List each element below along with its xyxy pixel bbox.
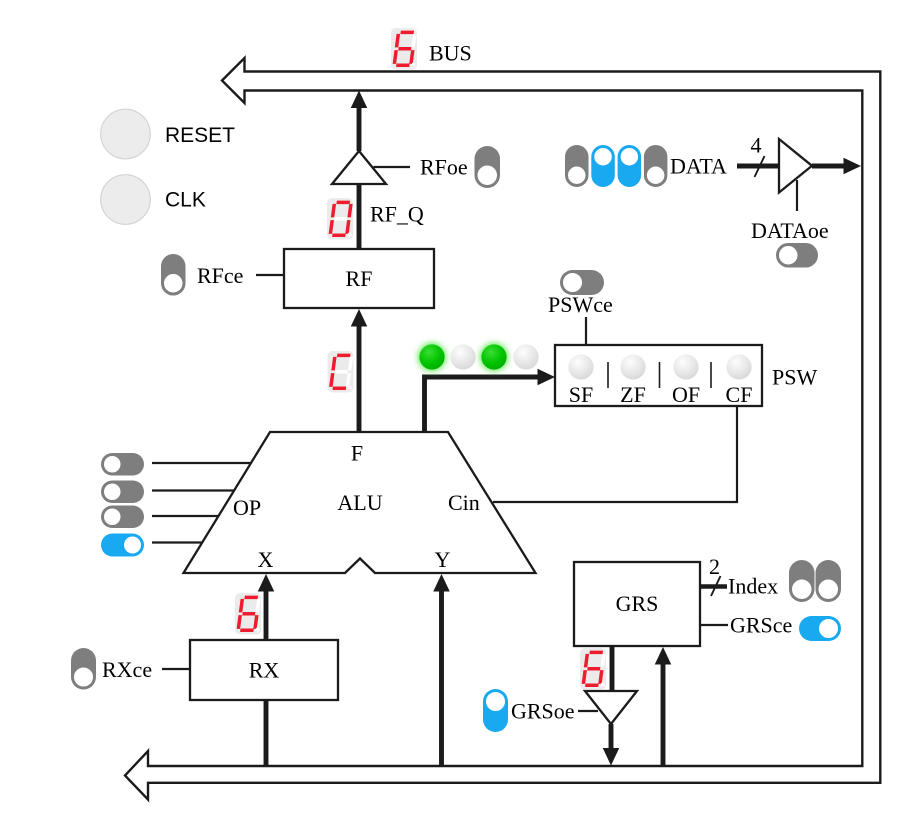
register RX xyxy=(190,640,338,700)
svg-text:PSWce: PSWce xyxy=(548,292,613,317)
arrowhead into right bus xyxy=(844,158,862,175)
wire bus to RX xyxy=(264,700,269,766)
wire bus to GRS xyxy=(661,660,666,766)
svg-text:CLK: CLK xyxy=(165,189,206,212)
wire RF to buffer xyxy=(357,184,362,249)
svg-text:CF: CF xyxy=(726,382,753,407)
svg-text:DATA: DATA xyxy=(670,154,727,179)
register PSW xyxy=(555,345,762,406)
wire RXce stub xyxy=(162,668,190,670)
toggle RXce (off) xyxy=(71,648,96,690)
wire GRSoe stub xyxy=(578,710,598,712)
toggle DATA bit0 (off) xyxy=(644,145,668,187)
tri-state buffer RFoe (up) xyxy=(332,151,386,184)
wire buffer to bus xyxy=(812,164,848,169)
svg-text:Index: Index xyxy=(728,574,778,599)
arrowhead into bottom bus xyxy=(603,748,620,766)
arrowhead into ALU X xyxy=(258,574,275,592)
svg-text:RF_Q: RF_Q xyxy=(370,202,424,227)
svg-text:X: X xyxy=(258,547,274,572)
svg-text:RXce: RXce xyxy=(102,657,152,682)
wire RX to ALU X xyxy=(264,585,269,640)
ALU xyxy=(184,432,536,573)
wire ALU flags to PSW xyxy=(425,377,546,432)
toggle DATA bit3 (off) xyxy=(565,145,589,187)
toggle GRSoe (on) xyxy=(483,689,508,732)
bus width slash Index xyxy=(711,576,721,596)
separator SF|ZF xyxy=(607,362,609,388)
svg-text:PSW: PSW xyxy=(772,365,817,390)
svg-text:BUS: BUS xyxy=(429,41,472,66)
wire RF_Q buffer to bus xyxy=(357,105,362,151)
toggle OP bit3 (off) xyxy=(101,453,144,476)
svg-text:GRSoe: GRSoe xyxy=(511,699,575,724)
wire RFce stub xyxy=(256,274,284,276)
RESET button xyxy=(101,109,151,159)
svg-text:ZF: ZF xyxy=(620,382,646,407)
svg-text:F: F xyxy=(351,441,363,466)
svg-text:RF: RF xyxy=(346,266,373,291)
register RF xyxy=(284,249,434,308)
svg-text:GRS: GRS xyxy=(616,591,659,616)
arrowhead into PSW xyxy=(538,369,556,386)
separator OF|CF xyxy=(710,362,712,388)
wire OP bit1 xyxy=(152,515,219,517)
svg-text:2: 2 xyxy=(709,554,720,579)
7-segment display BUS value showing 6 xyxy=(391,28,417,70)
bus width slash DATA xyxy=(755,156,765,177)
toggle Index bit0 (off) xyxy=(816,560,842,602)
PSW LED SF xyxy=(568,354,593,379)
PSW LED OF xyxy=(673,354,698,379)
separator ZF|OF xyxy=(659,362,661,388)
toggle GRSce (on) xyxy=(799,616,841,641)
svg-text:RX: RX xyxy=(249,658,280,683)
arrowhead into bus xyxy=(351,91,368,109)
wire GRSce stub xyxy=(700,624,728,626)
svg-text:OF: OF xyxy=(672,382,700,407)
tri-state buffer DATAoe (right) xyxy=(779,139,812,193)
toggle DATA bit1 (on) xyxy=(618,145,642,187)
svg-text:ALU: ALU xyxy=(337,490,382,515)
toggle OP bit1 (off) xyxy=(101,506,144,529)
wire ALU F to RF xyxy=(357,320,362,432)
toggle OP bit0 (on) xyxy=(101,534,144,557)
BUS hollow arrow (top, right, bottom) xyxy=(125,58,880,800)
wire OP bit0 xyxy=(152,541,202,543)
svg-text:OP: OP xyxy=(233,495,261,520)
7-segment display RX value showing 6 xyxy=(235,593,261,635)
svg-text:4: 4 xyxy=(751,133,762,158)
arrowhead into RF xyxy=(351,309,368,327)
wire OP bit2 xyxy=(152,489,234,491)
PSW LED CF xyxy=(726,354,751,379)
toggle DATA bit2 (on) xyxy=(591,145,615,187)
tri-state buffer GRSoe (down) xyxy=(585,691,637,724)
wire OP bit3 xyxy=(152,462,251,464)
wire GRS to buffer xyxy=(610,646,615,691)
toggle PSWce (off) xyxy=(560,270,604,295)
svg-text:RFoe: RFoe xyxy=(420,155,468,180)
CLK button xyxy=(101,175,151,225)
wire buffer to bottom bus xyxy=(609,724,614,752)
wire CF to Cin xyxy=(493,406,737,502)
arrowhead into ALU Y xyxy=(433,574,450,592)
7-segment display F value showing C xyxy=(328,351,354,393)
wire Index stub xyxy=(700,584,727,589)
svg-text:Y: Y xyxy=(435,547,451,572)
7-segment display RF_Q value showing 0 xyxy=(327,198,353,240)
wire bus to ALU Y xyxy=(439,585,444,766)
arrowhead into GRS xyxy=(655,647,672,665)
register file GRS xyxy=(574,562,700,646)
svg-text:GRSce: GRSce xyxy=(730,613,792,638)
svg-text:RFce: RFce xyxy=(197,263,243,288)
toggle RFoe (off) xyxy=(475,146,501,188)
LED flag OF (on) xyxy=(480,343,508,371)
toggle Index bit1 (off) xyxy=(789,560,815,602)
LED flag ZF (off) xyxy=(450,344,475,369)
toggle OP bit2 (off) xyxy=(101,481,144,504)
svg-text:RESET: RESET xyxy=(165,124,235,147)
svg-text:Cin: Cin xyxy=(448,490,480,515)
svg-text:SF: SF xyxy=(569,382,593,407)
LED flag SF (on) xyxy=(418,343,446,371)
svg-text:DATAoe: DATAoe xyxy=(751,218,829,243)
7-segment display GRS value showing 6 xyxy=(580,648,606,690)
wire RFoe stub xyxy=(374,166,411,168)
PSW LED ZF xyxy=(620,354,645,379)
LED flag CF (off) xyxy=(513,344,538,369)
toggle RFce (off) xyxy=(161,254,186,296)
toggle DATAoe (off) xyxy=(776,243,818,268)
wire DATA to buffer xyxy=(737,164,779,169)
wire DATAoe stub xyxy=(796,180,798,211)
wire PSWce stub xyxy=(585,317,587,345)
